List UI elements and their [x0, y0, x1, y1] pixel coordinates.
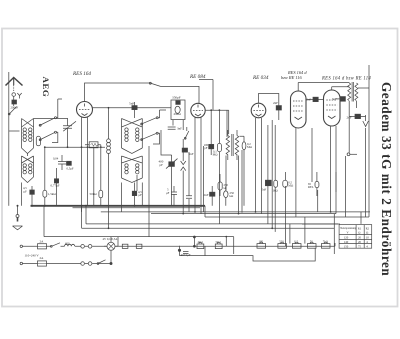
dial lamp: [107, 242, 115, 250]
capacitor 5nF top: [132, 106, 137, 110]
wire: x312 drop: [311, 128, 313, 182]
svg-text:Geadem 33 tG mit 2 Endröhren: Geadem 33 tG mit 2 Endröhren: [379, 82, 394, 276]
capacitor 5nF grids2: [340, 97, 345, 102]
svg-text:7kΩ: 7kΩ: [323, 239, 329, 243]
wire: x189 drop: [188, 152, 190, 196]
wire: lamp risers: [117, 237, 119, 247]
band filter 1 upper: [22, 119, 34, 154]
switch: band 2a: [141, 118, 157, 125]
resistor chain R 50: [307, 244, 316, 249]
svg-text:40+2μF: 40+2μF: [181, 253, 191, 257]
band filter 1 link: [27, 154, 29, 157]
svg-text:1kΩ: 1kΩ: [273, 189, 279, 193]
svg-text:200pF: 200pF: [11, 105, 19, 109]
switch: band 1a: [40, 118, 56, 126]
wire: T1 cathode drops: [81, 118, 83, 212]
oscillator coil loops: [107, 139, 111, 143]
grid capacitor box RE084: [171, 100, 185, 120]
wire: bus y228: [81, 206, 83, 228]
svg-text:RE 084: RE 084: [189, 73, 206, 80]
tube output 1: [291, 91, 307, 128]
wire: x19.5 bf1: [21, 183, 23, 206]
wire: x45 drop to bus: [43, 206, 45, 237]
svg-text:MΩ: MΩ: [213, 153, 219, 157]
tube output 2: [324, 90, 341, 126]
sub-chain loop: [180, 246, 316, 261]
capacitor variable 0.1: [63, 118, 72, 147]
svg-text:5nF: 5nF: [129, 101, 134, 105]
ground: main earth arrow: [17, 206, 19, 215]
wire: switch to RE084 grid: [161, 86, 200, 103]
resistor chain R 115: [292, 244, 301, 249]
wire: left border: [8, 72, 10, 106]
tube RES164: [77, 102, 93, 118]
svg-text:Ω: Ω: [358, 231, 360, 235]
wire: bus y224: [85, 206, 87, 224]
svg-text:μF: μF: [166, 191, 170, 195]
wire: thick chassis bus: [31, 205, 206, 207]
svg-text:2A: 2A: [40, 256, 45, 260]
wire: output loop bottom: [205, 206, 369, 217]
svg-text:MΩ: MΩ: [247, 145, 253, 149]
tube RE034: [251, 103, 266, 118]
wire: x365.6 drop: [365, 128, 367, 217]
svg-text:520: 520: [279, 239, 284, 243]
capacitor variable 400pF: [169, 162, 175, 167]
band filter 2 upper: [122, 119, 143, 154]
connector circles top: [81, 245, 85, 249]
svg-text:pF: pF: [204, 146, 208, 150]
resistor small left: [36, 136, 40, 146]
junction power: [110, 262, 112, 264]
svg-text:Ω: Ω: [366, 231, 368, 235]
wire: RES164 plate to switch: [85, 83, 151, 102]
wire: heater bus 1: [101, 211, 370, 213]
svg-text:3nF: 3nF: [177, 127, 182, 131]
resistor chain R 520: [278, 244, 287, 249]
wire: x336 drop: [335, 126, 337, 214]
capacitor 5uF: [171, 186, 177, 206]
svg-text:20: 20: [358, 240, 362, 244]
svg-text:RE 034: RE 034: [252, 74, 269, 81]
wire: y207 segment: [73, 207, 201, 209]
wire: right frame drop: [368, 65, 370, 217]
wire: resistor chain rail: [130, 243, 335, 246]
svg-text:2MΩ: 2MΩ: [174, 112, 182, 116]
choke power: [65, 244, 75, 246]
connector circles bottom: [81, 262, 85, 266]
wire: bf1 top link: [34, 118, 68, 120]
switch: band 2b: [141, 133, 157, 140]
wire: x121 bf2 left: [121, 183, 123, 212]
svg-text:2nF: 2nF: [347, 116, 352, 120]
wire: x354.6 drop: [355, 101, 357, 108]
wire: x336 upper: [335, 172, 337, 192]
wire: x182.7 drop: [182, 120, 184, 130]
wire: x137 cap drop: [136, 175, 138, 191]
capacitor 2nF speaker: [355, 114, 361, 118]
svg-text:110~240 V: 110~240 V: [25, 254, 40, 258]
svg-text:2nF: 2nF: [307, 98, 312, 102]
resistor 1.5k: [43, 190, 47, 197]
wire: x361 drop: [360, 212, 362, 224]
svg-text:5nF: 5nF: [189, 152, 194, 156]
band filter 2 lower: [122, 156, 143, 183]
fuse bottom 2A: [38, 261, 47, 266]
wire: x330.6 drop: [330, 126, 332, 212]
svg-text:REL: REL: [308, 185, 314, 189]
wire: x218 drop: [218, 158, 220, 224]
wire: bus y236: [44, 236, 234, 238]
wire: IF primary feed: [226, 110, 228, 137]
wire: transformer secondary drop: [348, 101, 350, 153]
svg-text:pF: pF: [160, 163, 164, 167]
wire: T2 cathode drops: [194, 118, 196, 212]
wire: x203 drop: [203, 146, 205, 212]
capacitor 2nF af: [276, 106, 281, 110]
svg-text:75: 75: [358, 245, 362, 249]
svg-text:RES 164 d bzw RE 114: RES 164 d bzw RE 114: [321, 77, 371, 82]
wire: x226 drop: [225, 156, 227, 191]
power line top: [23, 245, 131, 247]
svg-text:2A: 2A: [40, 240, 45, 244]
resistor chain R 7k: [321, 244, 330, 249]
wire: output loop inner: [302, 223, 340, 225]
wire: RE084 plate line: [205, 110, 229, 134]
wire: box drop: [93, 148, 95, 206]
table component values: [339, 225, 372, 249]
power line bottom: [23, 263, 112, 265]
svg-text:5nF: 5nF: [332, 97, 337, 101]
wire: avc line y147: [44, 146, 105, 148]
capacitor 2nF grids: [313, 97, 318, 101]
resistor chain R 4k: [197, 244, 204, 249]
resistor chain R 5k: [215, 244, 222, 249]
svg-text:10: 10: [366, 236, 370, 240]
svg-text:350pF: 350pF: [172, 96, 181, 100]
electrolytic caps 40+2uF: [183, 252, 189, 254]
pushbutton 1: [122, 244, 128, 248]
fuse top 2A: [38, 244, 47, 249]
output transformer: [298, 82, 369, 102]
capacitor 100pF det: [209, 144, 214, 148]
wire: x245 drop: [243, 150, 245, 206]
switch: antenna selector: [9, 107, 17, 115]
wire: x242 drop: [241, 150, 243, 213]
speaker arrow: [363, 116, 369, 126]
capacitor 5nF mid: [182, 148, 187, 152]
wire: plate loop y79: [199, 80, 213, 111]
svg-text:bzw RE 116: bzw RE 116: [281, 75, 302, 80]
antenna: [6, 78, 23, 86]
junction dot 40+2uF: [178, 249, 180, 251]
svg-text:180: 180: [259, 239, 264, 243]
wire: chain end riser: [333, 214, 335, 254]
svg-text:AEG: AEG: [41, 77, 51, 98]
wire: x295.9 drop: [295, 128, 297, 217]
capacitor antenna 200pF: [12, 100, 17, 104]
mains terminal top: [20, 245, 22, 247]
svg-text:5nF: 5nF: [262, 188, 267, 192]
svg-text:115: 115: [294, 239, 299, 243]
wire: x238 drop: [238, 156, 240, 214]
svg-text:600: 600: [65, 242, 70, 246]
svg-text:120: 120: [344, 236, 349, 240]
wire: contact y154: [347, 153, 350, 156]
wire: x345.4 drop: [344, 156, 346, 217]
capacitor 4.5uF mid: [132, 191, 136, 195]
svg-text:50kΩ: 50kΩ: [90, 192, 98, 196]
resistor 65 REL: [315, 181, 319, 187]
capacitor 0.04uF: [58, 155, 66, 170]
wire: grid line y107: [93, 107, 172, 109]
wire: left antenna drop: [8, 106, 10, 206]
switch: wave band top: [150, 83, 161, 86]
switch bottom: [98, 260, 106, 264]
svg-text:2nF: 2nF: [273, 101, 278, 105]
capacitor 0.5uF black: [67, 161, 72, 165]
switch: osc: [185, 131, 189, 139]
IF transformer zigzag: [226, 130, 239, 160]
pushbutton 2: [136, 244, 142, 248]
wire: left mid y131: [9, 130, 20, 132]
resistor 50k: [99, 190, 103, 198]
capacitor 3nF osc: [168, 127, 176, 129]
switch power: [52, 243, 61, 247]
wire: x272 drop: [271, 120, 273, 228]
svg-text:4kΩ: 4kΩ: [198, 240, 204, 244]
resistor chain R 180: [257, 244, 266, 249]
wire: x268 drop: [267, 125, 269, 180]
svg-text:20: 20: [358, 236, 362, 240]
wire: x275 drop: [274, 125, 276, 180]
resistor 0.5M oval: [242, 142, 246, 150]
wire: x173 grid box drop: [172, 120, 174, 126]
wire: T3 cathode drops: [255, 118, 257, 212]
chain risers: [194, 217, 305, 254]
switch: band 1b: [40, 132, 56, 140]
resistor 0.5M low: [283, 180, 288, 187]
svg-text:140: 140: [344, 240, 349, 244]
wire: x149 drop: [148, 146, 150, 237]
capacitor 0.77uF: [54, 179, 58, 183]
tube RE084: [191, 103, 205, 117]
svg-text:RES 164: RES 164: [72, 70, 91, 77]
svg-text:150: 150: [344, 245, 349, 249]
wire: osc coil drop: [108, 108, 110, 139]
capacitor plate pair x189: [186, 196, 192, 198]
wire: heater bus 2: [151, 213, 336, 215]
wire: IF secondary top lead: [240, 136, 245, 142]
wire: x161 drop: [161, 130, 172, 155]
jack fork symbol: [181, 161, 186, 171]
wire: power to chain: [110, 237, 112, 243]
junction dots avc: [44, 146, 102, 148]
wire: x285 drop: [284, 186, 286, 246]
svg-text:5kΩ: 5kΩ: [216, 240, 222, 244]
svg-text:μF: μF: [24, 189, 28, 193]
resistor box Gw: [85, 144, 101, 146]
resistor det: [217, 143, 221, 151]
capacitor 4.5uF left: [30, 190, 35, 194]
resistor 1k: [274, 180, 278, 187]
wire: x317.7 drop: [317, 190, 319, 212]
capacitor 2nF lower: [265, 180, 271, 186]
svg-text:MΩ: MΩ: [288, 184, 294, 188]
svg-text:μF: μF: [139, 193, 143, 197]
capacitor 2nF det2: [210, 192, 215, 196]
wire: x142 bf2 right: [141, 183, 143, 206]
svg-text:50: 50: [310, 239, 314, 243]
resistor 250ohm: [218, 182, 222, 190]
mains terminal bottom: [20, 262, 22, 264]
band filter 1 lower: [22, 156, 34, 183]
svg-text:2nF: 2nF: [204, 193, 209, 197]
resistor 250k oval: [224, 191, 228, 198]
antenna alt input fork: [17, 93, 21, 99]
